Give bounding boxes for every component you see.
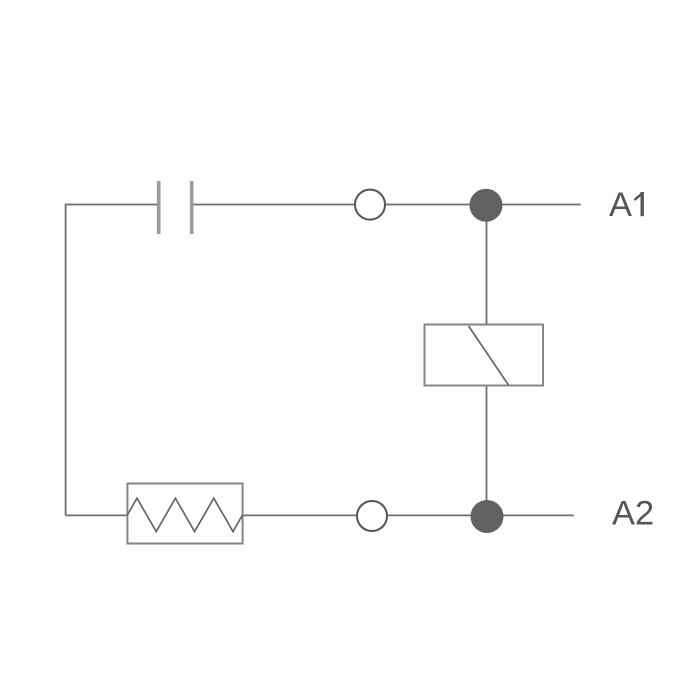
wire top horizontal (capacitor to A1) [194,204,581,206]
node A1 junction dot [470,189,503,222]
relay coil K1 diagonal [469,326,509,385]
svg-text:A2: A2 [612,495,654,533]
resistor R1 zigzag [127,498,242,531]
wire left vertical [65,204,67,516]
wire bottom-left horizontal (to resistor) [66,514,128,516]
wire vertical (A1 node to coil and A2 node) [486,205,488,517]
capacitor C1 left plate [157,181,161,234]
label A1 [609,186,642,224]
wire bottom horizontal (resistor to A2) [128,514,574,516]
terminal circle (top) [355,190,385,220]
svg-text:A: A [609,186,632,224]
terminal circle (bottom) [357,501,387,531]
resistor R1 box [127,484,242,544]
wire top-left horizontal (to capacitor left plate) [66,204,157,206]
node A2 junction dot [471,500,504,533]
relay coil K1 box [425,325,544,386]
capacitor C1 right plate [190,181,194,234]
